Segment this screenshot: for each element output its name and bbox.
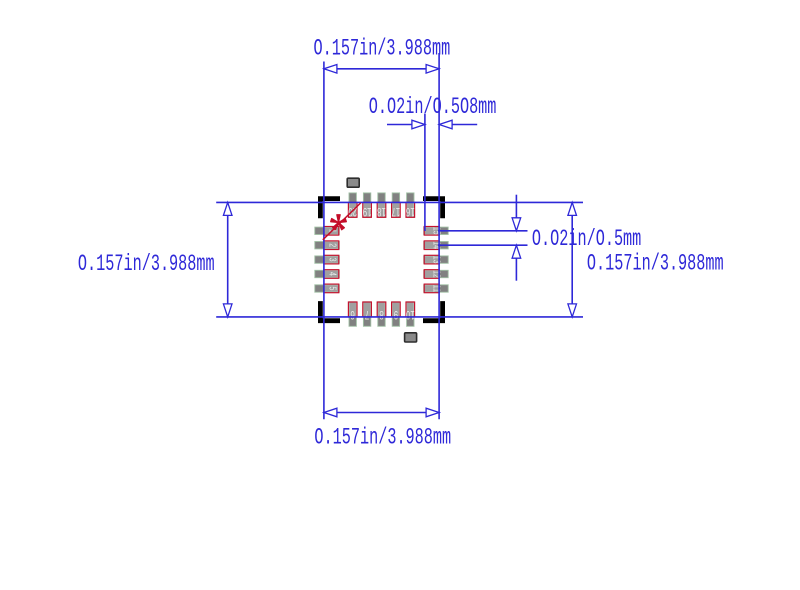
pin 1 marker asterisk	[331, 215, 347, 230]
pad P18 copper	[378, 193, 385, 218]
via marker bottom	[405, 333, 417, 342]
svg-text:18: 18	[377, 205, 386, 218]
dimension extension line right vertical	[438, 53, 440, 419]
pad P5 copper	[315, 285, 340, 292]
dimension extension line top horizontal	[216, 201, 583, 203]
svg-text:2: 2	[327, 243, 339, 247]
lead outline pin 20	[348, 202, 357, 217]
pad P19 copper	[363, 193, 370, 218]
dimension extension line bottom horizontal	[216, 316, 583, 318]
silkscreen corner bracket top-left	[318, 196, 340, 218]
pad P14 copper	[424, 242, 449, 249]
lead outline pin 7	[363, 302, 372, 317]
svg-text:9: 9	[393, 308, 398, 321]
svg-text:O.157in/3.988mm: O.157in/3.988mm	[314, 34, 451, 61]
lead outline pin 10	[406, 302, 415, 317]
lead outline pin 14	[424, 241, 439, 250]
lead outline pin 6	[348, 302, 357, 317]
lead outline pin 15	[424, 227, 439, 236]
svg-text:6: 6	[350, 308, 355, 321]
svg-text:O.157in/3.988mm: O.157in/3.988mm	[587, 249, 724, 276]
svg-text:4: 4	[327, 272, 339, 276]
lead outline pin 19	[363, 202, 372, 217]
lead outline pin 9	[392, 302, 401, 317]
pad P12 copper	[424, 270, 449, 277]
svg-text:8: 8	[379, 308, 384, 321]
svg-text:5: 5	[327, 286, 339, 290]
dimension arrows 0.02in lead width	[387, 124, 424, 126]
pad P9 copper	[392, 302, 399, 327]
pin 1 indicator line	[323, 203, 361, 240]
svg-text:19: 19	[362, 205, 371, 218]
lead outline pin 17	[392, 202, 401, 217]
lead outline pin 11	[424, 284, 439, 293]
svg-text:3: 3	[327, 258, 339, 262]
svg-text:17: 17	[391, 205, 400, 218]
silkscreen corner bracket top-right	[423, 196, 445, 218]
svg-text:16: 16	[406, 205, 415, 218]
dimension arrow line left 0.157in	[227, 202, 229, 317]
lead outline pin 8	[377, 302, 386, 317]
lead outline pin 2	[324, 241, 339, 250]
pad P4 copper	[315, 270, 340, 277]
svg-text:O.O2in/O.5mm: O.O2in/O.5mm	[532, 225, 641, 252]
svg-text:11: 11	[431, 285, 443, 292]
svg-text:O.157in/3.988mm: O.157in/3.988mm	[78, 250, 215, 277]
pad P20 copper	[349, 193, 356, 218]
pad P3 copper	[315, 256, 340, 263]
pad P13 copper	[424, 256, 449, 263]
dimension arrow line top 0.157in	[324, 68, 439, 70]
svg-text:10: 10	[406, 308, 415, 321]
pad P7 copper	[363, 302, 370, 327]
dimension extension line short (lead width)	[424, 114, 426, 232]
pad P1 copper	[315, 227, 340, 234]
dimension extension line left vertical	[323, 62, 325, 420]
pad P17 copper	[392, 193, 399, 218]
pad P10 copper	[407, 302, 414, 327]
lead outline pin 1	[324, 227, 339, 236]
lead outline pin 5	[324, 284, 339, 293]
pad P15 copper	[424, 227, 449, 234]
svg-text:O.157in/3.988mm: O.157in/3.988mm	[314, 423, 451, 450]
dimension extension line pad14 pitch	[438, 244, 528, 246]
svg-text:O.O2in/O.5O8mm: O.O2in/O.5O8mm	[369, 93, 497, 120]
svg-text:7: 7	[365, 308, 370, 321]
silkscreen corner bracket bottom-left	[318, 301, 340, 323]
dimension extension line pad15 pitch	[438, 230, 528, 232]
dimension arrow line bottom 0.157in	[324, 412, 439, 414]
svg-text:13: 13	[431, 256, 443, 264]
via marker top	[347, 178, 359, 187]
lead outline pin 16	[406, 202, 415, 217]
silkscreen corner bracket bottom-right	[423, 301, 445, 323]
pad P6 copper	[349, 302, 356, 327]
pad P16 copper	[407, 193, 414, 218]
svg-text:12: 12	[431, 270, 443, 278]
lead outline pin 13	[424, 255, 439, 264]
pad P11 copper	[424, 285, 449, 292]
pad P2 copper	[315, 242, 340, 249]
pad P8 copper	[378, 302, 385, 327]
lead outline pin 12	[424, 270, 439, 279]
lead outline pin 4	[324, 270, 339, 279]
lead outline pin 18	[377, 202, 386, 217]
dimension arrow line right 0.157in	[571, 202, 573, 317]
dimension arrows 0.02in pitch	[515, 195, 517, 229]
lead outline pin 3	[324, 255, 339, 264]
